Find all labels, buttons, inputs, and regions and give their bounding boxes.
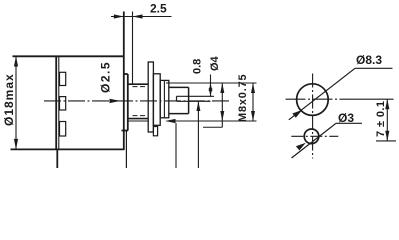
dim arrow down inner	[220, 111, 224, 121]
vertical centerline circles	[312, 74, 314, 159]
mounting plate front	[127, 74, 129, 131]
big circle Ø8.3	[297, 84, 329, 116]
dim M8 arrow up	[251, 83, 255, 93]
extension stub lower	[203, 126, 222, 128]
dim M8 arrow down	[251, 111, 255, 121]
centerline side view	[44, 100, 231, 102]
nut face line	[163, 80, 165, 117]
dim Ø18max line	[15, 56, 17, 149]
leader Ø3 arrow	[296, 143, 306, 151]
dim 0.8 line lower	[197, 101, 199, 168]
dim Ø18max arrow down	[14, 139, 18, 150]
shaft slot bottom face	[176, 96, 178, 101]
dim 2.5 extension line right	[132, 12, 134, 85]
svg-text:Ø18max: Ø18max	[2, 73, 16, 126]
horizontal centerline small circle	[291, 135, 338, 137]
svg-text:Ø8.3: Ø8.3	[356, 53, 382, 67]
terminal lead	[56, 149, 58, 168]
cover tab 1	[60, 72, 66, 85]
dim 7 arrow down	[385, 131, 389, 141]
dim Ø18max arrow up	[14, 56, 18, 66]
bushing top	[128, 83, 148, 85]
small circle Ø3	[304, 129, 319, 144]
shaft end face	[188, 87, 190, 113]
svg-text:2.5: 2.5	[150, 2, 167, 16]
bushing bottom	[128, 118, 148, 120]
arrow on lower extension	[165, 119, 176, 123]
dim Ø4 arrow up	[209, 83, 213, 91]
dim 2.5 line	[111, 16, 172, 18]
body left edge	[55, 56, 57, 150]
body top edge	[13, 55, 124, 57]
extension line upper (bushing top)	[166, 82, 257, 84]
dim 7±0.1 line	[386, 99, 388, 141]
dim 7 arrow up	[385, 99, 389, 109]
leader Ø8.3 arrow	[292, 110, 302, 118]
shaft slot bottom	[177, 100, 211, 102]
cover tab 2	[60, 97, 66, 110]
dim Ø4 line	[210, 75, 212, 97]
nut inner face	[153, 74, 160, 126]
svg-text:Ø3: Ø3	[338, 111, 354, 125]
body cover seam line	[58, 56, 60, 149]
plate bottom cap	[122, 130, 129, 132]
dim 2.5 arrow right	[114, 14, 124, 18]
body bottom edge	[11, 148, 124, 150]
leader Ø3 shoulder	[336, 122, 362, 124]
dim line M8x0.75	[252, 83, 254, 121]
extension 7 bottom	[376, 140, 396, 142]
svg-text:Ø4: Ø4	[209, 55, 221, 71]
leader Ø3 slant	[292, 123, 337, 158]
washer tab	[153, 127, 157, 136]
svg-text:0.8: 0.8	[192, 59, 204, 74]
horizontal centerline big circle	[286, 98, 348, 100]
dim Ø4 arrow down	[209, 88, 213, 96]
bushing thread dash top	[133, 86, 147, 88]
shaft bottom	[169, 113, 189, 115]
svg-text:M8x0.75: M8x0.75	[237, 74, 249, 122]
dim line inner (Ø4)	[221, 83, 223, 127]
shaft slot top	[177, 95, 215, 97]
shaft top	[169, 86, 189, 88]
plate extension down	[125, 131, 127, 169]
dim arrow up inner	[220, 83, 224, 93]
extension line lower (bushing bottom)	[171, 120, 257, 122]
extension line to bottom	[175, 123, 177, 168]
svg-text:Ø2.5: Ø2.5	[99, 61, 113, 93]
bushing thread dash bottom	[133, 115, 147, 117]
dim 0.8 arrow up	[196, 101, 200, 111]
svg-text:7 ± 0.1: 7 ± 0.1	[375, 101, 387, 137]
leader Ø8.3 shoulder	[355, 67, 393, 69]
plate top cap	[124, 73, 128, 75]
bushing bottom second line	[128, 120, 148, 122]
cover tab 3	[60, 122, 66, 137]
nut outer face	[160, 80, 169, 117]
body right edge	[123, 12, 125, 151]
washer	[148, 62, 153, 132]
leader arrow Ø2.5	[110, 99, 121, 103]
leader Ø8.3 slant	[289, 68, 355, 120]
dim 2.5 arrow left	[133, 14, 143, 18]
